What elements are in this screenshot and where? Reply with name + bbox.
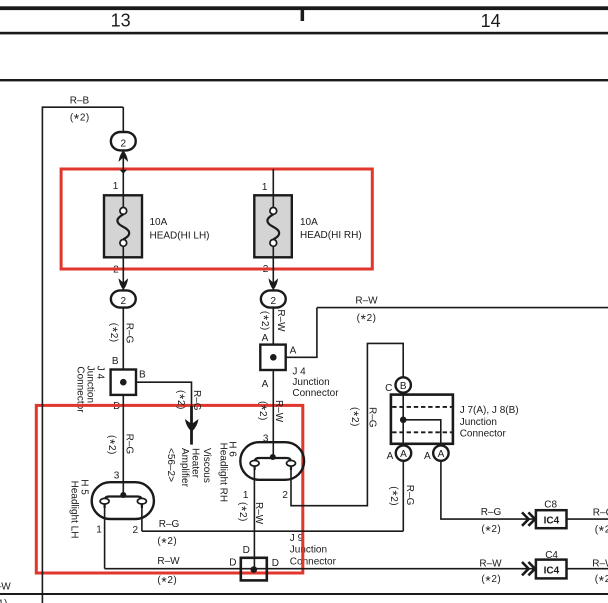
wire R-B horizontal (42, 106, 123, 108)
svg-text:R–W: R–W (253, 502, 264, 525)
svg-text:R–G: R–G (159, 519, 180, 530)
svg-text:D: D (229, 558, 236, 569)
svg-text:10A: 10A (150, 217, 168, 228)
wire left vertical (41, 106, 43, 603)
grid tick (301, 10, 305, 21)
svg-text:HEAD(HI LH): HEAD(HI LH) (150, 231, 210, 242)
svg-text:Junction: Junction (290, 545, 327, 556)
headlight RH filament bracket (255, 458, 291, 470)
svg-text:Headlight RH: Headlight RH (218, 443, 229, 502)
svg-text:R–W: R–W (355, 296, 378, 307)
wire headlight RH pin1 to J9 (253, 467, 255, 570)
wire connector to fuse LH (122, 151, 124, 196)
svg-text:A: A (387, 451, 394, 462)
connector box IC4 (C4) (536, 560, 567, 579)
chevron pass-through C8 (522, 512, 535, 525)
red system box (fuses) (61, 169, 372, 269)
wire connector 2 to J4 left (122, 308, 124, 370)
terminal B circle J7/J8 (396, 377, 411, 392)
headlight LH node dot (120, 492, 126, 498)
wire R-W run bottom (105, 568, 536, 570)
terminal A circle 2 (433, 445, 448, 460)
svg-text:Headlight LH: Headlight LH (69, 481, 80, 539)
junction connector J4 right (260, 345, 285, 370)
red system box (headlights) (36, 405, 303, 573)
svg-text:Heater: Heater (190, 448, 201, 479)
svg-text:Viscous: Viscous (201, 448, 212, 483)
bold wire to viscous amplifier (190, 406, 193, 445)
svg-text:J 4: J 4 (292, 367, 306, 378)
svg-text:R–W: R–W (479, 558, 502, 569)
connector box IC4 (C8) (536, 510, 567, 528)
arrow down into connector 2 LH (119, 278, 129, 290)
svg-text:2: 2 (271, 296, 277, 307)
frame rule (0, 79, 608, 81)
headlight LH terminal right (137, 498, 146, 504)
arrow up into connector (119, 150, 129, 162)
svg-text:R–W: R–W (0, 582, 11, 593)
wire A2 to IC4 C8 (441, 461, 536, 519)
svg-text:R–G: R–G (404, 485, 415, 506)
headlight RH terminal right (287, 461, 296, 467)
junction connector J9 (241, 558, 267, 581)
svg-text:R–B: R–B (70, 95, 90, 106)
svg-text:Connector: Connector (290, 556, 337, 567)
wire C8 to right edge (567, 518, 608, 520)
header rule (0, 32, 608, 35)
svg-text:(*1): (*1) (0, 598, 7, 603)
svg-text:Junction: Junction (84, 366, 95, 403)
fuse F1 element (117, 195, 129, 258)
svg-text:A: A (438, 449, 445, 460)
headlight LH terminal left (100, 498, 109, 504)
wire C4 to right edge (567, 568, 608, 570)
wire headlight LH pin2 down (141, 505, 143, 532)
chevron pass-through C4 (522, 562, 535, 575)
svg-text:R–G: R–G (481, 507, 502, 518)
connector 2 (top) (111, 132, 136, 150)
svg-text:2: 2 (121, 296, 127, 307)
svg-text:Connector: Connector (460, 428, 507, 439)
J7/J8 internal branch wire (403, 420, 441, 446)
svg-text:IC4: IC4 (544, 516, 560, 527)
svg-text:IC4: IC4 (544, 565, 560, 576)
svg-text:D: D (272, 558, 279, 569)
svg-text:B: B (112, 356, 119, 367)
svg-text:Junction: Junction (460, 417, 497, 428)
svg-text:R–W: R–W (157, 556, 180, 567)
fuse F1 body (104, 195, 142, 257)
headlight RH terminal left (250, 461, 259, 467)
wire red border to fuse RH (272, 169, 274, 195)
wire J4 left to headlight LH (122, 395, 124, 497)
svg-text:R–G: R–G (124, 323, 135, 344)
svg-text:A: A (400, 449, 407, 460)
svg-text:R–W: R–W (275, 309, 286, 332)
boundary marker triangle (120, 170, 127, 174)
svg-text:R–W: R–W (273, 400, 284, 423)
svg-text:13: 13 (111, 10, 131, 30)
svg-text:R–W: R–W (592, 559, 608, 570)
wire R-G run H5 pin2 to A1 (142, 530, 403, 532)
svg-text:10A: 10A (300, 217, 318, 228)
fuse F2 element (267, 195, 279, 258)
connector 2 (below fuse RH) (261, 290, 286, 307)
svg-text:1: 1 (243, 490, 249, 501)
svg-text:B: B (400, 381, 407, 392)
page top border (0, 6, 608, 10)
wire R-W feed to right edge (317, 307, 608, 309)
svg-text:R–G: R–G (124, 434, 135, 455)
svg-text:3: 3 (114, 470, 120, 481)
svg-text:Junction: Junction (292, 377, 329, 388)
svg-text:1: 1 (113, 181, 119, 192)
wire J4 right to headlight RH (272, 370, 274, 459)
branch wire J4 right to R-W feed (286, 308, 317, 358)
svg-text:1: 1 (262, 182, 268, 193)
svg-text:2: 2 (133, 525, 139, 536)
branch wire J4 left to viscous amplifier (136, 382, 192, 406)
svg-text:<56–2>: <56–2> (165, 448, 176, 482)
svg-text:C: C (385, 383, 392, 394)
svg-text:A: A (424, 451, 431, 462)
J7/J8 dashed separator 1 (392, 406, 452, 408)
bottom rail wire (0, 593, 608, 595)
svg-text:A: A (262, 379, 269, 390)
connector 2 (below fuse LH) (111, 290, 136, 307)
wire headlight RH pin2 to J7/J8 (291, 343, 403, 505)
J7/J8 internal wire B to A (402, 393, 404, 446)
svg-text:14: 14 (481, 11, 501, 31)
svg-text:2: 2 (282, 490, 288, 501)
svg-text:A: A (290, 346, 297, 357)
wire fuse RH to connector 2 (272, 257, 274, 290)
svg-text:Connector: Connector (292, 388, 339, 399)
headlight LH body H5 (92, 482, 154, 519)
svg-text:1: 1 (96, 525, 102, 536)
svg-text:B: B (139, 370, 146, 381)
wire headlight LH pin1 down (104, 505, 106, 569)
terminal A circle 1 (396, 445, 411, 460)
wire to connector 2 top (122, 107, 124, 132)
svg-text:R–G: R–G (593, 507, 608, 518)
svg-text:A: A (262, 333, 269, 344)
junction connector J7/J8 box (391, 395, 453, 444)
svg-text:Amplifier: Amplifier (179, 448, 190, 488)
svg-text:J 7(A), J 8(B): J 7(A), J 8(B) (460, 405, 519, 416)
headlight RH body H6 (240, 442, 304, 480)
svg-text:D: D (243, 545, 250, 556)
wire fuse LH to connector 2 (122, 257, 124, 290)
J7/J8 node dot (400, 417, 407, 424)
svg-text:R–G: R–G (367, 407, 378, 428)
junction connector J4 left (111, 370, 136, 395)
headlight LH filament bracket (105, 497, 142, 509)
fuse F2 body (254, 195, 291, 257)
svg-text:HEAD(HI RH): HEAD(HI RH) (300, 230, 362, 241)
headlight RH node dot (270, 454, 276, 460)
J7/J8 dashed separator 2 (392, 431, 452, 433)
svg-text:2: 2 (121, 138, 127, 149)
wire connector 2 to J4 right (272, 308, 274, 345)
wire A1 down (402, 461, 404, 531)
arrow down into connector 2 RH (269, 278, 279, 290)
arrow to viscous heater amplifier (185, 419, 199, 432)
